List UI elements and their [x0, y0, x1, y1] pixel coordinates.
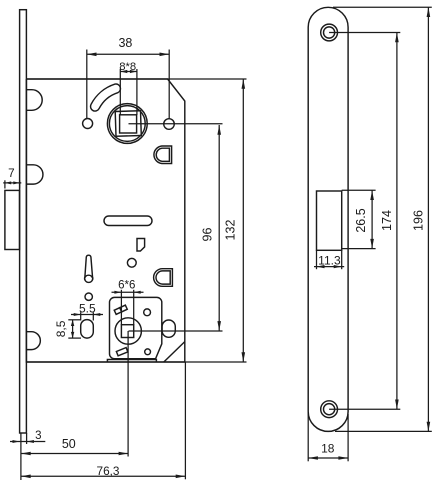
dim 7 ext lines — [4, 180, 6, 188]
svg-text:26.5: 26.5 — [354, 208, 368, 232]
housing circle lower — [145, 349, 151, 355]
dim 18 ext lines — [307, 412, 309, 461]
D-port upper (double outline) — [154, 146, 172, 164]
dim 8*8 line — [120, 71, 137, 73]
faceplate edge strip — [20, 10, 27, 433]
svg-text:132: 132 — [223, 220, 237, 241]
top screw hole inner — [324, 27, 335, 38]
dim 38 ext left — [86, 50, 88, 119]
dim 7 line — [3, 182, 21, 184]
spindle square hole 8x8 — [120, 115, 137, 133]
lower housing — [110, 297, 162, 358]
dim 26.5 line — [371, 190, 373, 248]
housing base flange — [107, 360, 156, 363]
strip bottom ext line left — [20, 433, 22, 480]
dim 8,5 line — [72, 320, 74, 338]
dim 3 line + tails — [10, 441, 45, 443]
svg-text:5.5: 5.5 — [79, 302, 96, 316]
follower center line down to 50 dim — [127, 331, 129, 457]
tilted rect lower — [116, 348, 127, 356]
dim 196 ext lines — [333, 6, 432, 8]
dim 196 line — [427, 7, 429, 431]
dim 76,3 line — [21, 475, 185, 477]
dim 8*8 ext left — [119, 69, 121, 115]
dim 6*6 ext lines — [120, 290, 122, 325]
teardrop slot — [85, 255, 93, 282]
latch cup D3 — [27, 332, 40, 350]
dim 18 line — [308, 457, 348, 459]
top screw hole outer — [321, 24, 338, 41]
dim 174 ext lines — [329, 32, 400, 34]
right fixing hole — [164, 119, 175, 130]
spindle hub outer square — [115, 111, 141, 137]
svg-text:50: 50 — [62, 437, 76, 451]
svg-text:196: 196 — [411, 210, 425, 231]
dim 5.5 ext lines — [80, 312, 82, 320]
dim 96 line — [218, 125, 220, 331]
bottom screw hole inner — [324, 404, 335, 415]
bottom screw hole outer — [321, 401, 338, 418]
svg-text:8,5: 8,5 — [54, 320, 68, 337]
svg-text:7: 7 — [8, 167, 15, 180]
dim 11.3 line — [314, 266, 344, 268]
corner brace diagonal bottom-right — [164, 342, 185, 362]
dim 26.5 ext lines — [342, 189, 376, 191]
dim 11.3 ext lines — [316, 250, 318, 269]
case top edge extension to 132 dim — [26, 78, 246, 80]
dim 8*8 ext right — [136, 69, 138, 115]
dim 50 line — [21, 453, 128, 455]
svg-text:3: 3 — [35, 430, 41, 442]
D-port lower (double outline) — [154, 269, 173, 287]
dim 132 line — [242, 79, 244, 362]
cylinder capsule hole 5.5x8.5 — [81, 320, 94, 339]
svg-text:96: 96 — [201, 228, 215, 242]
faceplate cutout — [317, 191, 342, 250]
latch cup D1 — [27, 90, 42, 111]
spindle hub outer circle — [107, 104, 147, 144]
striker faceplate front view — [308, 7, 348, 431]
left fixing hole — [83, 119, 93, 129]
teardrop waist arc — [85, 275, 93, 278]
oval on case right — [162, 320, 175, 337]
svg-text:38: 38 — [118, 36, 132, 50]
follower center line to 96 dim — [129, 330, 223, 332]
dim 8,5 ext lines — [68, 319, 81, 321]
svg-text:8*8: 8*8 — [119, 61, 136, 73]
dim 38 line — [87, 53, 169, 55]
follower circle — [115, 318, 141, 344]
small circle below tag — [127, 258, 136, 267]
follower square 6x6 — [121, 325, 133, 338]
svg-text:174: 174 — [380, 210, 394, 231]
tag shape — [137, 239, 145, 252]
magnetic latch bolt extended — [5, 190, 20, 249]
svg-text:6*6: 6*6 — [118, 280, 135, 292]
svg-text:18: 18 — [321, 442, 335, 456]
dim 76,3 ext right — [184, 362, 186, 479]
svg-text:11.3: 11.3 — [318, 253, 341, 267]
tilted rect upper-right piece — [120, 305, 128, 312]
dim 174 line — [396, 33, 398, 410]
lock case outline — [26, 79, 184, 362]
kidney curved slot — [90, 84, 120, 111]
hub center line to 96 dim — [129, 123, 223, 125]
strip bottom ext line right — [26, 433, 28, 444]
dim 5.5 line — [71, 314, 103, 316]
housing circle upper — [144, 309, 151, 316]
svg-text:76,3: 76,3 — [97, 464, 120, 478]
case bottom edge extension to 132 dim — [26, 361, 246, 363]
capsule slot horizontal — [104, 216, 152, 226]
spindle hub inner circle — [109, 106, 145, 142]
tilted rect upper-left piece — [114, 308, 122, 315]
latch cup D2 — [27, 165, 43, 184]
dim 6*6 line — [112, 291, 144, 293]
dim 38 ext right — [168, 50, 170, 119]
small circle below teardrop — [85, 293, 92, 300]
